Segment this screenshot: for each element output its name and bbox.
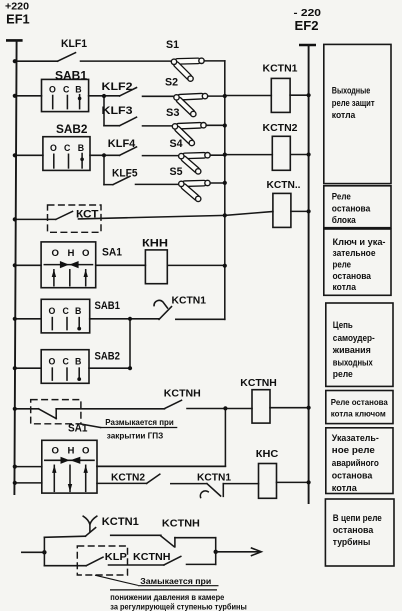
wire SA1 to KHH <box>96 264 146 266</box>
svg-text:турбины: турбины <box>333 537 371 547</box>
wire KHH to collector <box>167 264 225 266</box>
svg-text:KCTN1: KCTN1 <box>197 472 231 483</box>
svg-text:С: С <box>63 84 70 94</box>
svg-text:блока: блока <box>332 215 357 225</box>
svg-text:котла: котла <box>333 282 357 292</box>
contact KCTN1 with Y latch <box>83 516 139 536</box>
svg-text:S4: S4 <box>170 138 184 150</box>
svg-text:реле: реле <box>333 259 352 269</box>
svg-text:Н: Н <box>68 248 75 259</box>
svg-text:SAB2: SAB2 <box>95 351 120 363</box>
contact KLF1 <box>58 38 88 61</box>
contact KLF4 <box>108 138 137 155</box>
svg-text:SA1: SA1 <box>102 247 122 259</box>
junction SAB merge bottom <box>128 366 132 370</box>
wire bottom branch left <box>44 565 86 567</box>
legend box 3 <box>324 229 391 295</box>
wire row2 mid <box>143 95 175 97</box>
wire collector to relay KCTN.. <box>225 212 273 216</box>
svg-text:Выходные: Выходные <box>332 86 371 96</box>
wire row5 right <box>210 182 225 184</box>
relay coil KHH <box>142 237 168 283</box>
relay coil KHC <box>256 448 279 499</box>
wire SAB2-2 to merge <box>89 367 130 369</box>
svg-text:О: О <box>49 84 56 94</box>
svg-text:KCTNH: KCTNH <box>240 378 276 389</box>
rejoin vertical <box>215 538 217 565</box>
svg-text:О: О <box>50 143 57 153</box>
junction dots right bus <box>307 93 311 484</box>
contact KCTNH lower <box>133 551 181 565</box>
bus EF2 vertical <box>308 45 310 503</box>
wire row2 right <box>208 95 225 97</box>
junction dots left bus <box>13 59 17 485</box>
link S3 <box>166 107 206 146</box>
svg-text:Ключ и ука-: Ключ и ука- <box>333 237 386 247</box>
wire SA1-2 top left <box>15 466 42 468</box>
contact SA1 (closed, in dashed box) <box>31 400 88 435</box>
svg-text:S2: S2 <box>165 77 178 89</box>
switch SAB1 (box O C B) <box>42 71 89 112</box>
switch SAB2 (box O C B) <box>43 124 90 170</box>
wire row4 mid <box>143 155 179 157</box>
relay coil KCTN2 <box>263 123 298 170</box>
contact KLF2 <box>102 81 137 96</box>
svg-text:KLF1: KLF1 <box>61 38 87 50</box>
legend box 2 <box>324 186 391 228</box>
svg-text:за регулирующей ступенью турби: за регулирующей ступенью турбины <box>110 601 247 611</box>
svg-text:Указатель-: Указатель- <box>332 433 379 443</box>
collector node line 2 <box>97 408 225 466</box>
wire row1 mid <box>81 60 172 62</box>
svg-text:KCTN1: KCTN1 <box>102 516 139 528</box>
svg-text:останова: останова <box>332 470 373 480</box>
wire row5 mid <box>136 183 179 185</box>
junction bottom split <box>42 537 46 565</box>
wire KCTN.. to bus <box>291 210 309 212</box>
link S5 <box>170 166 211 201</box>
wire SAB1-2 row right <box>176 318 225 320</box>
svg-text:S5: S5 <box>170 166 183 178</box>
branch vertical KLF4/KLF5 <box>103 155 105 184</box>
contact KCTN1 (NC hook) <box>154 296 206 320</box>
link S2 <box>165 77 208 117</box>
contact KCTN2 <box>111 472 160 483</box>
collector node line 1 <box>224 61 226 319</box>
branch vertical KLF2/KLF3 <box>103 96 105 126</box>
svg-text:котла ключом: котла ключом <box>331 409 386 419</box>
svg-text:С: С <box>64 143 71 153</box>
svg-text:О: О <box>52 248 60 259</box>
svg-text:KLF2: KLF2 <box>102 81 133 93</box>
svg-text:О: О <box>82 445 90 456</box>
node -220 label <box>294 7 322 19</box>
relay coil KCTN1 <box>263 63 298 112</box>
junction arrow node <box>214 550 218 554</box>
svg-text:реле защит: реле защит <box>332 98 375 108</box>
wire SA1 row left <box>15 264 41 266</box>
wire row1 right <box>204 60 225 62</box>
svg-text:аварийного: аварийного <box>332 458 379 468</box>
svg-text:В: В <box>75 84 81 94</box>
junction SAB merge top <box>128 317 132 321</box>
wire SA1-2 top right to collector2 <box>97 465 225 467</box>
bus EF2 terminal bar <box>299 44 316 47</box>
wire SAB2 row left <box>15 154 43 156</box>
svg-text:живания: живания <box>332 345 371 355</box>
svg-text:SAB1: SAB1 <box>55 71 88 83</box>
svg-text:О: О <box>52 445 60 456</box>
svg-text:останова: останова <box>333 271 372 281</box>
svg-text:реле: реле <box>333 369 353 379</box>
wire SAB1 row left <box>15 95 42 97</box>
svg-text:останова: останова <box>333 525 374 535</box>
wire bottom branch mid <box>109 564 164 566</box>
wire KCT row left <box>15 218 56 220</box>
svg-text:KLF4: KLF4 <box>108 138 136 150</box>
svg-text:Цепь: Цепь <box>333 320 353 330</box>
legend box 7 <box>325 499 394 566</box>
svg-text:О: О <box>49 357 56 367</box>
svg-text:KCTN..: KCTN.. <box>267 180 301 191</box>
svg-text:KLP: KLP <box>105 551 127 563</box>
contact KCTN1 (closed, hook) <box>197 472 231 497</box>
svg-text:С: С <box>63 306 70 316</box>
wire bottom branch right <box>187 563 216 565</box>
svg-text:S3: S3 <box>166 107 180 119</box>
dashed box KCT <box>48 205 102 232</box>
wire top branch left <box>44 536 85 537</box>
svg-text:О: О <box>49 306 56 316</box>
svg-text:КНС: КНС <box>256 448 279 460</box>
wire KCTNH coil to bus <box>270 407 309 409</box>
wire row3 right <box>206 124 225 126</box>
switch SA1 lower (box O H O) <box>42 440 97 493</box>
svg-text:останова: останова <box>332 203 371 213</box>
wire SAB1-2 row left <box>15 318 41 320</box>
svg-text:Реле: Реле <box>332 192 351 202</box>
svg-text:S1: S1 <box>166 39 179 51</box>
svg-text:KCTNH: KCTNH <box>164 389 201 400</box>
relay coil KCTN.. <box>267 180 301 228</box>
wire arrow out <box>216 548 262 556</box>
wire bottom entry stub <box>22 551 45 553</box>
svg-text:KCTN1: KCTN1 <box>172 296 207 307</box>
bus EF1 terminal bar <box>6 39 23 42</box>
contact KCT <box>56 208 99 220</box>
svg-text:KLF3: KLF3 <box>102 105 133 117</box>
wire row1 left <box>15 60 58 62</box>
svg-text:зательное: зательное <box>333 248 376 258</box>
svg-text:KCTN1: KCTN1 <box>263 63 298 74</box>
bus EF1 vertical <box>14 40 16 494</box>
note text GPZ <box>100 417 177 440</box>
switch SAB2 lower (box O C B) <box>41 350 120 384</box>
wire top branch mid <box>111 534 161 536</box>
svg-text:ное реле: ное реле <box>332 445 375 455</box>
switch SAB1 lower (box O C B) <box>41 299 120 333</box>
svg-text:KCTN2: KCTN2 <box>263 123 298 134</box>
wire KHC to bus <box>277 481 309 483</box>
legend box 4 <box>326 303 393 386</box>
wire KCTNH row left <box>15 408 39 410</box>
wire SAB2 to junction <box>90 154 120 156</box>
svg-text:О: О <box>82 248 90 259</box>
wire mid KHC row <box>171 483 207 485</box>
note text KLP condition <box>110 576 247 611</box>
wire SA1-2 bottom to KCTN2 contact <box>97 482 147 484</box>
contact KLF3 <box>102 105 137 126</box>
wire KCTN1 to bus <box>290 94 309 96</box>
wire SAB1-2 to contact <box>90 318 159 320</box>
link S1 <box>166 39 204 81</box>
svg-text:SAB2: SAB2 <box>56 124 88 136</box>
svg-text:EF2: EF2 <box>295 18 319 33</box>
legend box 6 <box>326 428 393 494</box>
svg-text:KLF5: KLF5 <box>112 167 138 179</box>
svg-text:Замыкается при: Замыкается при <box>140 576 211 586</box>
svg-text:самоудер-: самоудер- <box>333 333 375 343</box>
junction KLF4/5 <box>102 153 106 157</box>
svg-text:закрытии ГПЗ: закрытии ГПЗ <box>107 430 164 440</box>
wire to KCTNH contact <box>56 408 164 410</box>
junction vertical SAB1/SAB2 merge <box>129 319 131 368</box>
wire SA1-2 bottom left <box>15 482 42 484</box>
link S4 <box>170 138 211 174</box>
svg-text:KCTN2: KCTN2 <box>111 472 145 483</box>
svg-text:EF1: EF1 <box>6 12 30 27</box>
wire collector to relay KCTN2 <box>225 154 272 156</box>
wire to KHC coil <box>223 483 258 485</box>
wire KCT to collector <box>79 215 225 219</box>
svg-text:В цепи реле: В цепи реле <box>333 513 382 523</box>
svg-text:котла: котла <box>332 483 358 493</box>
wire row4 right <box>210 154 225 156</box>
svg-text:SAB1: SAB1 <box>95 300 120 312</box>
svg-text:В: В <box>75 306 81 316</box>
wire row3 mid <box>143 125 173 127</box>
svg-text:KCTNH: KCTNH <box>133 551 171 563</box>
legend box 1 <box>324 44 391 183</box>
node EF1 label <box>6 12 30 27</box>
node EF2 label <box>295 18 319 33</box>
node +220 label <box>5 1 29 13</box>
wire SAB2-2 row left <box>15 367 41 369</box>
svg-text:В: В <box>75 357 81 367</box>
svg-text:Реле останова: Реле останова <box>331 397 388 407</box>
contact KLF5 <box>104 167 138 184</box>
wire KCTN2 to bus <box>290 154 308 156</box>
legend box 5 <box>326 391 393 424</box>
svg-text:котла: котла <box>332 110 356 120</box>
note leader line KLP <box>95 575 138 585</box>
svg-text:С: С <box>63 357 70 367</box>
junction KLF2/3 <box>102 94 106 98</box>
wire SAB1 to junction <box>89 95 120 97</box>
wire collector to relay KCTN1 <box>225 95 271 97</box>
contact KCTNH <box>164 389 201 409</box>
contact KCTNH (closed) <box>161 518 200 547</box>
svg-text:В: В <box>78 143 84 153</box>
contact KLP <box>77 546 127 575</box>
svg-text:Размыкается при: Размыкается при <box>105 417 174 427</box>
relay coil KCTNH <box>240 378 276 423</box>
svg-text:Н: Н <box>68 445 75 456</box>
wire top branch right <box>175 537 216 539</box>
wire KCTNH contact to coil <box>187 408 252 410</box>
note leader line GPZ <box>81 424 101 428</box>
svg-text:выходных: выходных <box>333 358 374 368</box>
svg-text:КНН: КНН <box>142 237 168 249</box>
switch SA1 (box O H O) <box>41 242 122 288</box>
svg-text:KCTNH: KCTNH <box>162 518 200 530</box>
junction dots collector <box>223 94 228 411</box>
svg-text:понижении давления в камере: понижении давления в камере <box>110 592 224 602</box>
